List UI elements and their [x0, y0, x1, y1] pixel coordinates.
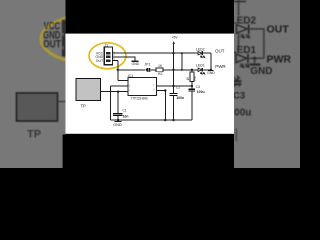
- svg-text:100u: 100u: [197, 90, 205, 94]
- svg-text:+5V: +5V: [172, 36, 179, 40]
- svg-text:C3: C3: [233, 90, 245, 101]
- svg-text:LED1: LED1: [231, 45, 257, 56]
- svg-text:C1: C1: [123, 108, 127, 112]
- svg-text:PWR: PWR: [215, 64, 226, 69]
- svg-text:100n: 100n: [176, 96, 184, 100]
- svg-text:GND: GND: [113, 123, 122, 127]
- svg-text:GND: GND: [250, 66, 272, 77]
- svg-text:JP1: JP1: [144, 62, 150, 66]
- svg-text:PWR: PWR: [267, 53, 292, 65]
- svg-text:GND: GND: [207, 71, 215, 75]
- svg-text:J1: J1: [105, 43, 109, 47]
- svg-text:LED1: LED1: [196, 64, 205, 68]
- svg-text:R3: R3: [193, 76, 197, 80]
- svg-text:C3: C3: [196, 85, 200, 89]
- svg-text:C2: C2: [176, 86, 180, 90]
- svg-text:GND: GND: [132, 62, 140, 66]
- svg-text:TTP223-BA6: TTP223-BA6: [131, 97, 148, 101]
- svg-text:TP: TP: [27, 128, 41, 140]
- svg-text:OUT: OUT: [267, 23, 290, 35]
- svg-text:IC1: IC1: [128, 74, 134, 78]
- svg-text:LED2: LED2: [231, 15, 257, 26]
- svg-text:R2: R2: [158, 72, 163, 76]
- svg-text:LED2: LED2: [196, 47, 205, 51]
- svg-text:10n: 10n: [123, 114, 129, 118]
- svg-text:OUT: OUT: [96, 59, 104, 63]
- svg-text:1K: 1K: [158, 64, 163, 68]
- svg-text:TP: TP: [81, 103, 87, 108]
- svg-text:OUT: OUT: [43, 39, 61, 51]
- svg-text:OUT: OUT: [215, 48, 225, 53]
